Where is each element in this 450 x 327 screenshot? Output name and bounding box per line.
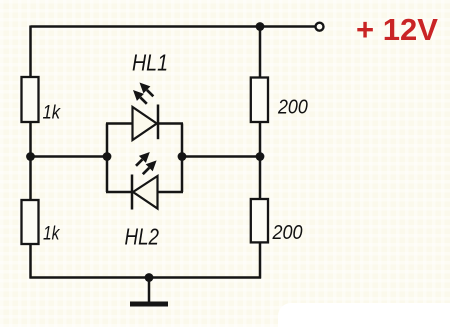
- wire right branch upper: [259, 27, 262, 78]
- wire bridge left vertical: [106, 124, 109, 193]
- svg-text:1k: 1k: [43, 224, 61, 245]
- white panel bottom right: [278, 303, 450, 327]
- junction node dot right mid: [256, 152, 265, 161]
- junction node dot ground: [145, 273, 154, 282]
- resistor R 200 top-right: [251, 78, 308, 123]
- wire bottom rail: [30, 276, 262, 279]
- wire left branch mid to R4: [29, 157, 32, 201]
- wire right branch mid to R3: [259, 157, 262, 200]
- junction node dot left mid: [26, 152, 35, 161]
- svg-text:200: 200: [277, 97, 308, 119]
- wire right branch R2 to mid node: [259, 122, 262, 157]
- resistor R 1k top-left: [22, 77, 62, 124]
- resistor R 1k bottom-left: [22, 200, 61, 245]
- junction node dot top right: [256, 22, 265, 31]
- svg-text:1k: 1k: [43, 103, 62, 124]
- junction node dot bridge left: [103, 152, 112, 161]
- wire right branch R3 to bottom: [259, 243, 262, 279]
- svg-text:200: 200: [272, 222, 303, 244]
- wire left branch R4 to bottom: [29, 244, 32, 279]
- LED HL1 emission arrows (pointing up-left): [133, 83, 153, 104]
- svg-text:+ 12V: + 12V: [356, 12, 438, 47]
- junction node dot bridge right: [178, 152, 187, 161]
- svg-text:HL2: HL2: [125, 224, 160, 250]
- LED HL2 emission arrows (pointing up-right): [136, 152, 157, 174]
- resistor R 200 bottom-right: [251, 199, 303, 244]
- wire middle horizontal right segment: [182, 155, 260, 158]
- LED HL2 diode (pointing left): [132, 175, 158, 210]
- wire left branch R1 to mid node: [29, 122, 32, 157]
- ground symbol: [130, 278, 168, 305]
- wire bridge top segments (HL1 branch): [106, 122, 183, 125]
- wire middle horizontal left segment: [31, 155, 108, 158]
- wire top rail: [31, 25, 320, 28]
- wire bridge bottom segments (HL2 branch): [106, 191, 183, 194]
- wire left branch upper: [29, 26, 32, 78]
- terminal open circle +12V: [316, 23, 324, 31]
- LED HL1 diode (pointing right): [133, 105, 159, 141]
- wire bridge right vertical: [181, 124, 184, 193]
- svg-text:HL1: HL1: [132, 50, 168, 76]
